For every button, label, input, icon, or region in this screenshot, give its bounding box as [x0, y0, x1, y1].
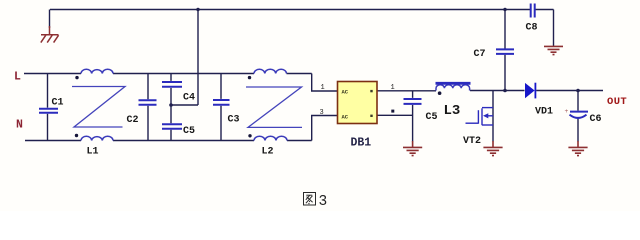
svg-text:+: + — [565, 108, 569, 115]
svg-text:L1: L1 — [87, 147, 99, 158]
svg-text:C3: C3 — [228, 115, 240, 126]
svg-text:C1: C1 — [52, 98, 64, 109]
svg-text:OUT: OUT — [607, 96, 627, 108]
svg-text:DB1: DB1 — [351, 137, 372, 150]
svg-text:AC: AC — [342, 89, 349, 96]
svg-text:C4: C4 — [183, 93, 195, 104]
svg-text:L: L — [14, 71, 21, 84]
svg-text:AC: AC — [342, 113, 349, 120]
svg-text:N: N — [16, 119, 23, 132]
svg-text:3: 3 — [319, 194, 328, 210]
svg-text:C7: C7 — [474, 49, 486, 60]
svg-text:VT2: VT2 — [463, 136, 481, 147]
svg-text:VD1: VD1 — [535, 107, 553, 118]
svg-text:L2: L2 — [262, 147, 274, 158]
svg-text:L3: L3 — [444, 103, 461, 119]
svg-text:C6: C6 — [590, 114, 602, 125]
svg-text:1: 1 — [391, 84, 395, 92]
svg-text:3: 3 — [320, 109, 324, 117]
svg-text:C5: C5 — [426, 112, 438, 123]
svg-text:C2: C2 — [127, 115, 139, 126]
svg-text:C5: C5 — [183, 126, 195, 137]
svg-text:C8: C8 — [526, 23, 538, 34]
svg-text:1: 1 — [321, 84, 325, 92]
